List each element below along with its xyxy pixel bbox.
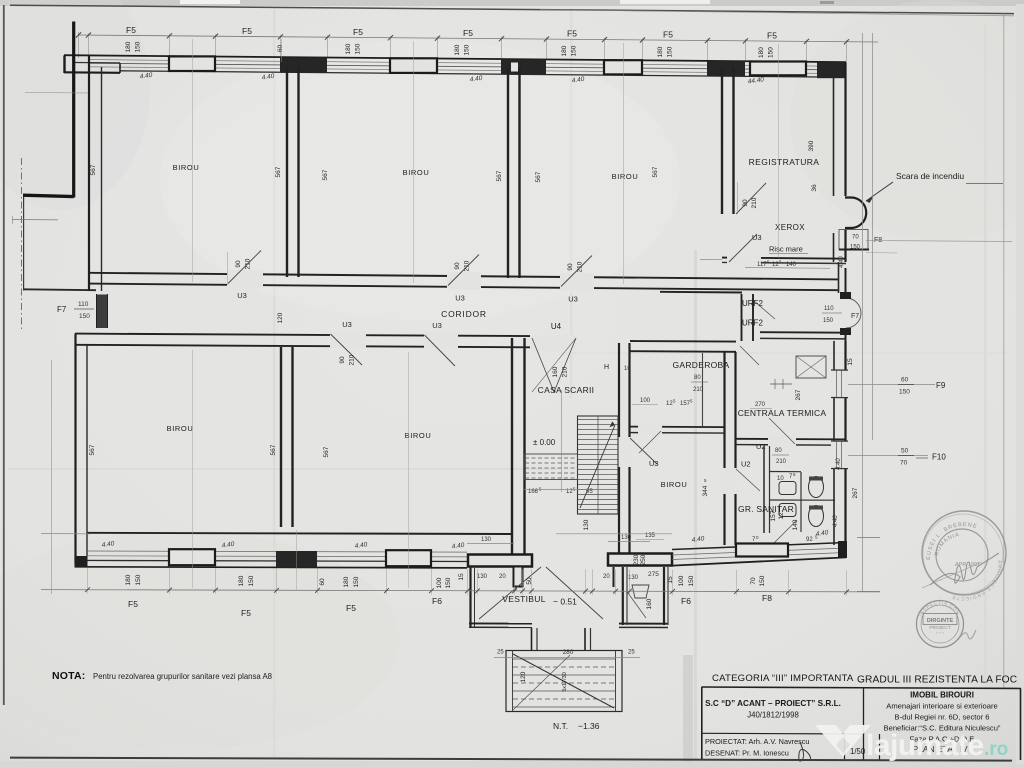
east tick y591 [857, 591, 880, 593]
stair west wall (birou5 east wall) [511, 338, 513, 554]
xerox door gap and diagonal [727, 256, 761, 266]
svg-text:180: 180 [657, 46, 664, 57]
top exterior wall inner face [120, 71, 833, 77]
gr sanitar divider vertical [763, 446, 765, 533]
svg-text:H: H [604, 364, 609, 371]
svg-text:275: 275 [648, 571, 659, 578]
svg-text:166: 166 [528, 489, 539, 495]
svg-text:80: 80 [775, 448, 782, 454]
svg-text:− 0.51: − 0.51 [553, 597, 577, 607]
sink 1 [779, 482, 796, 495]
svg-text:210: 210 [349, 354, 356, 365]
svg-text:140: 140 [786, 262, 797, 268]
svg-text:± 0.00: ± 0.00 [533, 438, 556, 447]
svg-text:CENTRALA TERMICA: CENTRALA TERMICA [738, 408, 827, 418]
vestibule door swing left [479, 567, 541, 619]
exterior landing at fire escape [839, 230, 868, 250]
bottom wall inner face left [87, 533, 512, 534]
window axis line room5 [408, 352, 410, 588]
title block frame [702, 687, 1022, 689]
fold crease vertical right-of-plan [694, 250, 697, 760]
svg-text:70: 70 [750, 577, 757, 585]
pier between window1 and window2 [280, 58, 327, 73]
svg-text:130: 130 [481, 537, 492, 543]
svg-text:567: 567 [89, 444, 96, 455]
svg-text:25: 25 [628, 650, 635, 656]
svg-text:CATEGORIA “III” IMPORTANTA: CATEGORIA “III” IMPORTANTA [712, 673, 854, 684]
URF2 lobby wall vertical [741, 294, 743, 341]
corridor bottom wall lower line [75, 345, 530, 348]
svg-text:210: 210 [776, 459, 787, 465]
svg-text:F5: F5 [663, 29, 673, 39]
wall between birou1 and birou2 [286, 66, 288, 277]
svg-text:GARDEROBA: GARDEROBA [672, 360, 729, 370]
svg-text:95: 95 [586, 489, 593, 495]
pier at wall B junction [501, 59, 546, 74]
svg-text:150: 150 [667, 46, 674, 57]
left dim extension for bottom wall [41, 533, 90, 535]
svg-text:U3: U3 [432, 321, 442, 330]
svg-text:VESTIBUL: VESTIBUL [502, 594, 546, 604]
stair door U3 to birou6 [616, 437, 632, 467]
svg-text:15: 15 [667, 576, 674, 584]
svg-text:F9: F9 [936, 381, 946, 390]
svg-text:BIROU: BIROU [173, 163, 200, 172]
garderoba top wall [630, 340, 736, 343]
right exterior wall upper outer face [844, 63, 846, 197]
svg-text:GR. SANITAR: GR. SANITAR [738, 504, 794, 514]
svg-text:130: 130 [477, 574, 488, 580]
round stamp large [922, 511, 1006, 595]
svg-text:150: 150 [571, 45, 578, 56]
vestibule door swing right [546, 567, 603, 619]
top-left corner pier [63, 55, 65, 73]
svg-text:U2: U2 [741, 460, 751, 469]
underline scara de incendiu [966, 183, 1003, 185]
page border left [3, 5, 5, 705]
svg-text:140: 140 [792, 519, 799, 530]
pier at wall C junction [707, 61, 745, 76]
window axis line room4 [192, 350, 194, 588]
svg-text:90: 90 [567, 263, 574, 271]
svg-text:150: 150 [823, 318, 834, 324]
svg-text:10: 10 [624, 366, 631, 372]
fold crease horizontal [8, 468, 558, 470]
svg-text:IMOBIL BIROURI: IMOBIL BIROURI [910, 691, 974, 700]
scan top edge band [0, 0, 1024, 6]
scan right edge band [1016, 4, 1024, 764]
exterior stair treads [513, 658, 615, 660]
fold crease vertical middle [570, 8, 573, 398]
svg-text:150: 150 [79, 313, 90, 320]
svg-text:50: 50 [901, 448, 909, 455]
svg-text:210: 210 [245, 258, 252, 269]
svg-text:4.40: 4.40 [839, 256, 845, 268]
svg-text:F5: F5 [346, 603, 356, 613]
vestibule bottom wall right [619, 623, 668, 625]
page border right [1003, 13, 1005, 688]
top exterior wall sill lines [88, 60, 833, 67]
svg-text:12: 12 [778, 512, 785, 520]
svg-text:120: 120 [520, 671, 527, 682]
svg-text:1/50: 1/50 [850, 747, 866, 756]
svg-text:150: 150 [135, 574, 142, 585]
svg-text:S.C “D” ACANT – PROIECT” S.R.L: S.C “D” ACANT – PROIECT” S.R.L. [705, 699, 841, 708]
svg-text:567: 567 [90, 164, 97, 175]
svg-text:5x17/30: 5x17/30 [562, 672, 568, 692]
wall between birou3 and registratura [721, 67, 723, 214]
left exterior wall lower block outer [74, 334, 76, 564]
door gap U2 upper [768, 437, 796, 448]
window F5 room1 top [169, 56, 215, 71]
svg-text:DESENAT: Pr. M. Ionescu: DESENAT: Pr. M. Ionescu [705, 749, 789, 758]
svg-text:180: 180 [125, 574, 132, 585]
svg-text:267: 267 [852, 487, 859, 498]
door gap garderoba [638, 424, 662, 435]
svg-text:567: 567 [275, 166, 282, 177]
svg-text:F7: F7 [57, 305, 67, 314]
svg-text:60: 60 [901, 377, 909, 384]
svg-text:150: 150 [688, 575, 695, 586]
garderoba bottom wall / birou6 top [630, 426, 724, 429]
window F8 bottom right [736, 544, 788, 557]
svg-text:4.40: 4.40 [836, 458, 842, 470]
vestibule bottom wall left [469, 622, 532, 624]
page border top [10, 5, 1014, 13]
svg-text:150: 150 [759, 575, 766, 586]
window F5 registratura top [750, 62, 806, 76]
svg-text:180: 180 [454, 44, 461, 55]
dim line 135 horizontal [556, 533, 672, 535]
round stamp small [917, 601, 964, 648]
svg-text:100: 100 [436, 577, 443, 588]
svg-text:210: 210 [751, 197, 758, 208]
svg-text:150: 150 [355, 43, 362, 54]
svg-text:210: 210 [577, 261, 584, 272]
svg-text:15: 15 [458, 573, 465, 581]
garderoba closet divider [702, 353, 704, 426]
svg-text:F5: F5 [353, 27, 363, 37]
svg-text:B-dul Regiei nr. 6D, sector 6: B-dul Regiei nr. 6D, sector 6 [895, 713, 990, 722]
svg-text:150: 150 [353, 576, 360, 587]
window axis line room2 [413, 41, 415, 283]
window F10 dim and label [848, 455, 928, 457]
door U3 opening room2 [447, 272, 481, 290]
svg-text:J40/1812/1998: J40/1812/1998 [747, 711, 799, 720]
toilet 1 [809, 477, 824, 498]
sink 2 [779, 504, 796, 517]
corridor right wall segment [838, 262, 840, 293]
svg-text:270: 270 [755, 402, 766, 408]
svg-text:150: 150 [445, 577, 452, 588]
terrace wall bottom horizontal [24, 288, 96, 291]
svg-text:150: 150 [248, 575, 255, 586]
svg-text:4.40: 4.40 [833, 515, 839, 527]
east dimension extension line 2 [872, 33, 874, 440]
svg-text:90: 90 [742, 199, 749, 207]
scan bottom edge band [0, 761, 1024, 768]
exterior stair side wall left [531, 628, 533, 651]
bottom wall sill lines left [87, 551, 467, 552]
svg-text:F5: F5 [767, 30, 777, 40]
svg-text:80: 80 [694, 375, 701, 381]
corridor top wall upper line [89, 273, 838, 280]
svg-text:CASA SCARII: CASA SCARII [538, 385, 595, 395]
page border bottom [10, 758, 1012, 761]
radiator marks centrala [770, 383, 792, 385]
fold crease vertical near right edge [984, 25, 987, 680]
svg-text:XEROX: XEROX [775, 223, 805, 232]
svg-text:180: 180 [345, 43, 352, 54]
site boundary dash-dot line [20, 158, 22, 330]
pier bottom wall between rooms [276, 551, 317, 568]
svg-text:150: 150 [899, 389, 910, 396]
stair landing hatched [525, 454, 578, 480]
svg-text:210: 210 [693, 387, 704, 393]
signature next to small stamp [958, 630, 976, 640]
svg-text:15: 15 [847, 358, 854, 366]
svg-text:230: 230 [633, 554, 640, 565]
svg-text:BIROU: BIROU [167, 424, 194, 433]
bottom wall inner face right segment [672, 543, 846, 550]
svg-text:100: 100 [640, 398, 651, 404]
svg-text:F5: F5 [463, 28, 473, 38]
svg-text:GRADUL III REZISTENTA LA FOC: GRADUL III REZISTENTA LA FOC [857, 675, 1017, 686]
svg-text:160: 160 [646, 598, 653, 609]
URF2 lower diagonal [740, 346, 759, 365]
svg-text:567: 567 [496, 170, 503, 181]
svg-text:100: 100 [678, 575, 685, 586]
east tick y537 [857, 537, 880, 539]
svg-text:CORIDOR: CORIDOR [441, 309, 487, 319]
svg-text:180: 180 [125, 41, 132, 52]
exterior stair outline [506, 651, 622, 712]
boiler equipment [796, 356, 826, 378]
svg-text:F5: F5 [241, 608, 251, 618]
svg-text:URF2: URF2 [742, 319, 763, 328]
top dimension line [78, 35, 878, 42]
door opening bottom B [424, 332, 458, 349]
svg-text:N.T.: N.T. [553, 721, 568, 731]
svg-text:110: 110 [824, 306, 834, 312]
svg-text:Risc mare: Risc mare [769, 245, 803, 254]
heavy terrace wall vertical left [72, 22, 75, 198]
svg-text:.ro: .ro [984, 739, 1008, 760]
left small dimension line [12, 219, 58, 221]
right door F7 walls [845, 268, 847, 296]
fold crease vertical left [273, 8, 276, 758]
svg-text:BIROU: BIROU [612, 172, 639, 181]
window F5 room2 top [390, 58, 437, 73]
terrace wall thin vertical [23, 197, 25, 291]
top dimension start extension [78, 32, 80, 58]
toilet 2 [809, 506, 824, 527]
svg-text:567: 567 [322, 169, 329, 180]
west door F7 hatched [96, 295, 108, 329]
svg-text:lajumate: lajumate [866, 729, 984, 762]
scan tone blotch 1 [0, 530, 400, 750]
corridor lower right wall segment [660, 291, 742, 294]
svg-text:* * *: * * * [936, 631, 944, 636]
svg-text:60: 60 [277, 45, 284, 53]
svg-text:PROIECTAT: Arh. A.V. Navrescu: PROIECTAT: Arh. A.V. Navrescu [705, 737, 810, 746]
wall between birou2 and birou3 [507, 67, 509, 278]
svg-text:70: 70 [852, 235, 859, 241]
svg-text:157: 157 [770, 510, 777, 521]
vestibule mat [632, 585, 649, 598]
svg-text:20: 20 [603, 574, 610, 580]
svg-text:150: 150 [850, 245, 861, 251]
signature squiggle [799, 742, 811, 761]
svg-text:F5: F5 [128, 599, 138, 609]
svg-text:180: 180 [561, 45, 568, 56]
right exterior wall lower inner [833, 341, 835, 545]
top-right corner pier [817, 62, 846, 78]
svg-text:130: 130 [621, 535, 632, 541]
svg-text:NOTA:: NOTA: [52, 670, 85, 682]
scan tone blotch 4 [0, 0, 150, 210]
window F5 room4 bottom [169, 549, 215, 565]
svg-text:210: 210 [562, 366, 569, 377]
bottom wall outer face right segment [672, 557, 846, 565]
xerox bottom wall [722, 258, 846, 259]
svg-text:U3: U3 [455, 294, 465, 303]
svg-text:90: 90 [454, 262, 461, 270]
svg-text:25: 25 [497, 650, 504, 656]
svg-text:567: 567 [652, 166, 659, 177]
svg-text:150: 150 [135, 41, 142, 52]
door U3 opening room1 [227, 270, 263, 288]
right wall below F7 door [845, 330, 847, 341]
svg-text:Amenajari interioare si exteri: Amenajari interioare si exterioare [886, 702, 997, 711]
centrala termica top wall [760, 331, 846, 334]
svg-text:−1.36: −1.36 [578, 721, 600, 731]
window axis line room1 [192, 39, 194, 282]
gr sanitar divider horizontal [770, 499, 835, 501]
svg-text:F10: F10 [932, 453, 946, 462]
exterior stair diagonal [513, 654, 614, 708]
left exterior wall of birou1 outer face [88, 56, 90, 291]
door U2 lower gap in west wall [722, 468, 738, 494]
svg-text:20: 20 [499, 574, 506, 580]
bottom-left corner [75, 556, 88, 568]
right wall between fire door and xerox [844, 229, 846, 262]
door opening bottom room A [330, 331, 366, 348]
svg-text:F6: F6 [432, 596, 442, 606]
left exterior wall lower block inner [86, 345, 88, 556]
URF2 door diagonal upper [754, 301, 775, 319]
recess door diagonal [628, 593, 646, 618]
pier axis line bottom [296, 530, 298, 590]
window axis line registratura [778, 44, 780, 258]
svg-text:267: 267 [795, 389, 802, 400]
svg-text:URF2: URF2 [742, 299, 763, 308]
svg-text:BIROU: BIROU [661, 480, 688, 489]
svg-text:90: 90 [235, 260, 242, 268]
svg-text:Scara de incendiu: Scara de incendiu [896, 171, 964, 181]
vestibule east recess pier [613, 567, 615, 587]
vestibule west wall [469, 567, 471, 628]
svg-text:130: 130 [583, 519, 590, 530]
svg-text:U3: U3 [752, 233, 762, 242]
long extension line right y241 [866, 241, 1012, 242]
bottom dim extension lines [87, 568, 89, 594]
svg-text:F5: F5 [126, 25, 136, 35]
right exterior wall lower outer [844, 341, 846, 545]
fire escape D-shaped stair tower [845, 198, 866, 229]
window F5 room5 bottom [386, 550, 431, 566]
svg-text:F5: F5 [567, 29, 577, 39]
svg-text:U3: U3 [237, 291, 247, 300]
bottom wall sill lines right segment [672, 548, 846, 555]
svg-text:120: 120 [277, 312, 284, 323]
gr sanitar inner wall 2 [800, 472, 802, 532]
window axis line room3 [623, 43, 625, 284]
svg-text:REGISTRATURA: REGISTRATURA [749, 157, 820, 167]
bottom dimension line [41, 590, 880, 592]
svg-text:F7: F7 [851, 313, 859, 320]
svg-text:Pentru rezolvarea grupurilor s: Pentru rezolvarea grupurilor sanitare ve… [93, 672, 272, 681]
top dimension extension lines and ticks [88, 33, 90, 56]
vestibule west pier stub [514, 567, 523, 587]
svg-text:390: 390 [808, 140, 815, 151]
scan tone blotch 3 [790, 0, 1024, 240]
window F5 room3 top [604, 60, 642, 74]
vestibule east recess far wall [663, 567, 665, 625]
svg-text:36: 36 [811, 184, 818, 192]
stair dim line vertical [561, 390, 563, 492]
risc mare dim lines [700, 259, 722, 261]
corridor bottom wall upper line [75, 334, 530, 337]
window F10 gap in right wall [831, 441, 848, 469]
svg-text:180: 180 [343, 576, 350, 587]
svg-text:U3: U3 [342, 320, 352, 329]
arrow to fire escape door [866, 182, 893, 201]
svg-text:567: 567 [270, 444, 277, 455]
svg-text:250: 250 [640, 554, 647, 565]
garderoba east wall / sanitar west wall [723, 352, 725, 545]
svg-text:567: 567 [535, 171, 542, 182]
svg-text:U3: U3 [568, 295, 578, 304]
svg-text:210: 210 [464, 260, 471, 271]
svg-text:60: 60 [319, 578, 326, 586]
svg-text:BIROU: BIROU [403, 168, 430, 177]
svg-text:F6: F6 [681, 596, 691, 606]
right door F7 arc [846, 298, 861, 328]
wall between birou4 and birou5 [280, 347, 282, 527]
svg-text:50: 50 [526, 577, 533, 585]
svg-text:150: 150 [464, 44, 471, 55]
svg-text:DIRGINTE: DIRGINTE [927, 618, 954, 624]
top exterior wall outer face [64, 55, 846, 62]
east dimension extension line 1 [862, 33, 864, 592]
svg-text:F8: F8 [762, 593, 772, 603]
svg-text:117: 117 [757, 262, 767, 268]
pier axis line top [281, 39, 283, 62]
scan tone blotch 2 [160, 40, 680, 320]
watermark logo lajumate [815, 725, 871, 757]
window F9 dim and label [848, 384, 935, 386]
wall centrala/gr sanitar [736, 438, 846, 441]
door U1 diagonal [771, 520, 797, 546]
svg-text:92: 92 [806, 537, 813, 543]
svg-text:110: 110 [78, 301, 89, 308]
stair flight hatched [578, 416, 619, 514]
window F9 gap in right wall [831, 370, 848, 398]
left margin guide line [25, 92, 88, 95]
door U3 registratura diagonal [736, 183, 766, 214]
door U3 opening room3 [560, 273, 594, 291]
